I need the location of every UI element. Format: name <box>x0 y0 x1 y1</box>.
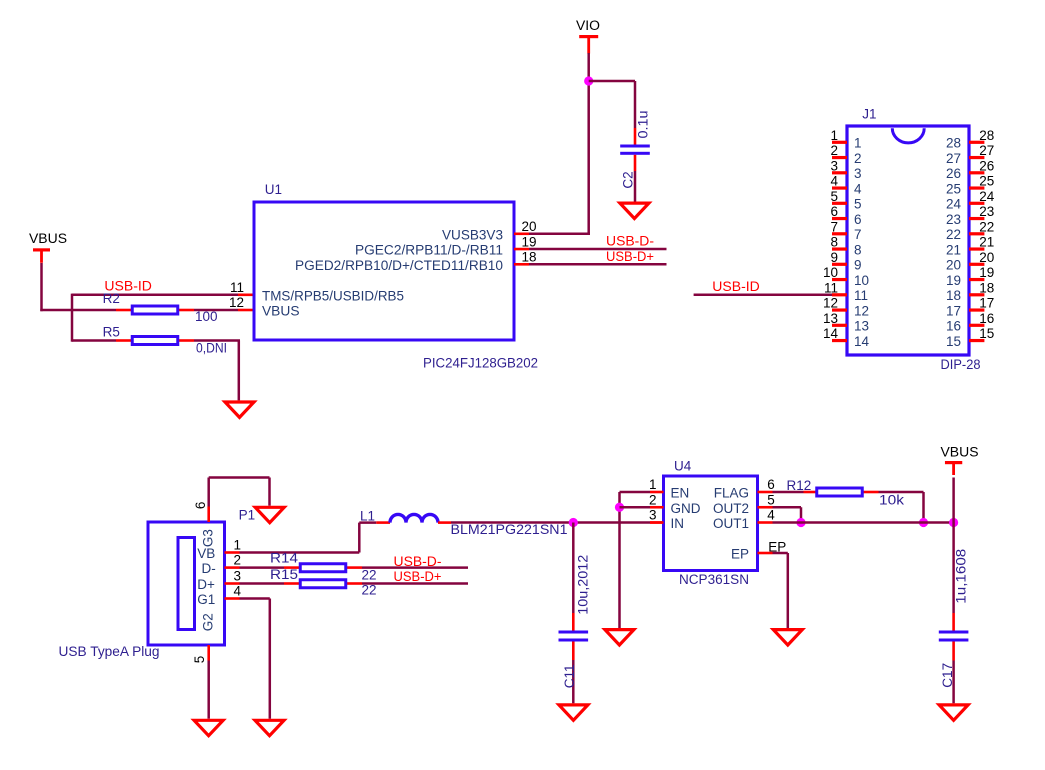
svg-text:1: 1 <box>854 136 862 151</box>
svg-text:G3: G3 <box>201 529 216 547</box>
svg-text:EP: EP <box>731 547 749 562</box>
svg-text:PIC24FJ128GB202: PIC24FJ128GB202 <box>423 356 538 371</box>
svg-text:20: 20 <box>522 219 537 234</box>
svg-text:14: 14 <box>854 334 870 349</box>
svg-text:4: 4 <box>234 584 242 599</box>
svg-text:23: 23 <box>946 212 961 227</box>
svg-text:OUT2: OUT2 <box>713 501 749 516</box>
svg-text:G1: G1 <box>197 592 215 607</box>
svg-text:USB-D+: USB-D+ <box>394 569 442 584</box>
svg-text:6: 6 <box>193 502 208 510</box>
svg-text:R5: R5 <box>103 325 120 340</box>
svg-text:3: 3 <box>649 508 657 523</box>
svg-text:5: 5 <box>767 492 775 507</box>
svg-text:6: 6 <box>830 204 838 219</box>
svg-text:R15: R15 <box>270 567 298 582</box>
svg-text:21: 21 <box>946 242 961 257</box>
svg-text:C2: C2 <box>621 171 636 188</box>
svg-text:3: 3 <box>234 569 242 584</box>
svg-text:5: 5 <box>854 197 862 212</box>
svg-text:U4: U4 <box>674 459 692 474</box>
svg-text:9: 9 <box>854 258 862 273</box>
svg-text:16: 16 <box>946 319 961 334</box>
svg-text:24: 24 <box>979 189 995 204</box>
svg-text:17: 17 <box>979 296 994 311</box>
svg-text:1u,1608: 1u,1608 <box>954 549 969 604</box>
svg-text:15: 15 <box>946 334 961 349</box>
svg-text:10: 10 <box>854 273 869 288</box>
svg-text:25: 25 <box>946 181 961 196</box>
svg-text:18: 18 <box>522 250 537 265</box>
svg-text:NCP361SN: NCP361SN <box>679 572 749 587</box>
svg-text:DIP-28: DIP-28 <box>941 357 981 372</box>
svg-text:28: 28 <box>946 136 961 151</box>
svg-text:USB-D+: USB-D+ <box>606 249 654 264</box>
svg-text:22: 22 <box>362 568 377 583</box>
svg-text:GND: GND <box>671 501 701 516</box>
svg-text:16: 16 <box>979 311 994 326</box>
svg-text:6: 6 <box>854 212 862 227</box>
svg-text:TMS/RPB5/USBID/RB5: TMS/RPB5/USBID/RB5 <box>262 288 404 303</box>
svg-text:J1: J1 <box>862 107 876 122</box>
svg-text:USB-ID: USB-ID <box>712 279 760 294</box>
svg-text:21: 21 <box>979 235 994 250</box>
svg-text:2: 2 <box>649 492 657 507</box>
svg-text:11: 11 <box>230 280 244 295</box>
svg-text:VBUS: VBUS <box>941 445 979 460</box>
svg-text:8: 8 <box>830 235 838 250</box>
svg-text:26: 26 <box>979 158 994 173</box>
svg-text:5: 5 <box>192 656 207 664</box>
svg-text:24: 24 <box>946 197 962 212</box>
svg-text:USB TypeA Plug: USB TypeA Plug <box>59 644 160 659</box>
svg-text:3: 3 <box>830 158 838 173</box>
svg-text:BLM21PG221SN1: BLM21PG221SN1 <box>451 522 568 537</box>
svg-text:26: 26 <box>946 166 961 181</box>
svg-text:12: 12 <box>854 303 869 318</box>
svg-text:VBUS: VBUS <box>262 304 300 319</box>
svg-text:0.1u: 0.1u <box>636 111 651 139</box>
svg-text:19: 19 <box>522 234 537 249</box>
svg-text:9: 9 <box>830 250 838 265</box>
svg-text:2: 2 <box>830 143 838 158</box>
svg-text:15: 15 <box>979 326 994 341</box>
svg-text:10k: 10k <box>879 493 904 508</box>
svg-text:11: 11 <box>824 280 838 295</box>
svg-text:27: 27 <box>946 151 961 166</box>
svg-text:13: 13 <box>854 319 869 334</box>
svg-text:0,DNI: 0,DNI <box>196 341 227 356</box>
svg-text:8: 8 <box>854 242 862 257</box>
svg-text:12: 12 <box>823 296 838 311</box>
svg-text:5: 5 <box>830 189 838 204</box>
svg-text:FLAG: FLAG <box>714 486 749 501</box>
svg-text:2: 2 <box>234 553 242 568</box>
svg-text:R14: R14 <box>270 551 299 566</box>
svg-text:USB-D-: USB-D- <box>606 234 654 249</box>
svg-text:10: 10 <box>823 265 838 280</box>
svg-text:27: 27 <box>979 143 994 158</box>
svg-text:28: 28 <box>979 128 994 143</box>
svg-text:G2: G2 <box>201 613 216 631</box>
svg-text:U1: U1 <box>265 182 282 197</box>
svg-text:22: 22 <box>979 219 994 234</box>
svg-text:22: 22 <box>362 582 377 597</box>
svg-text:R2: R2 <box>103 291 120 306</box>
svg-text:14: 14 <box>823 326 839 341</box>
svg-text:25: 25 <box>979 174 994 189</box>
svg-text:18: 18 <box>979 280 994 295</box>
svg-text:4: 4 <box>854 181 862 196</box>
svg-text:VIO: VIO <box>576 18 600 33</box>
svg-text:EP: EP <box>768 540 786 555</box>
svg-text:1: 1 <box>830 128 838 143</box>
svg-text:P1: P1 <box>239 508 256 523</box>
svg-text:4: 4 <box>830 174 838 189</box>
svg-text:3: 3 <box>854 166 862 181</box>
svg-text:1: 1 <box>649 477 657 492</box>
svg-text:19: 19 <box>979 265 994 280</box>
svg-text:100: 100 <box>195 309 218 324</box>
svg-text:PGEC2/RPB11/D-/RB11: PGEC2/RPB11/D-/RB11 <box>355 243 503 258</box>
svg-text:1: 1 <box>234 538 242 553</box>
svg-text:L1: L1 <box>360 509 375 524</box>
svg-text:D-: D- <box>202 561 216 576</box>
svg-text:VB: VB <box>197 546 215 561</box>
svg-text:D+: D+ <box>197 577 215 592</box>
svg-text:VUSB3V3: VUSB3V3 <box>442 227 503 242</box>
svg-text:PGED2/RPB10/D+/CTED11/RB10: PGED2/RPB10/D+/CTED11/RB10 <box>295 258 503 273</box>
svg-text:IN: IN <box>671 516 685 531</box>
svg-text:17: 17 <box>946 303 961 318</box>
svg-text:19: 19 <box>946 273 961 288</box>
svg-text:EN: EN <box>671 486 690 501</box>
svg-text:7: 7 <box>830 219 838 234</box>
svg-text:13: 13 <box>823 311 838 326</box>
svg-text:23: 23 <box>979 204 994 219</box>
svg-text:2: 2 <box>854 151 862 166</box>
svg-text:20: 20 <box>946 258 961 273</box>
svg-text:C17: C17 <box>940 663 955 688</box>
svg-text:18: 18 <box>946 288 961 303</box>
svg-text:12: 12 <box>229 295 244 310</box>
svg-text:22: 22 <box>946 227 961 242</box>
svg-text:C11: C11 <box>562 665 577 689</box>
svg-text:4: 4 <box>767 508 775 523</box>
svg-text:OUT1: OUT1 <box>713 516 749 531</box>
svg-text:VBUS: VBUS <box>29 231 67 246</box>
svg-text:6: 6 <box>767 477 775 492</box>
svg-text:7: 7 <box>854 227 862 242</box>
svg-text:11: 11 <box>854 288 868 303</box>
svg-text:R12: R12 <box>787 478 812 493</box>
svg-text:10u,2012: 10u,2012 <box>576 555 591 615</box>
svg-text:USB-D-: USB-D- <box>394 554 442 569</box>
svg-text:20: 20 <box>979 250 994 265</box>
